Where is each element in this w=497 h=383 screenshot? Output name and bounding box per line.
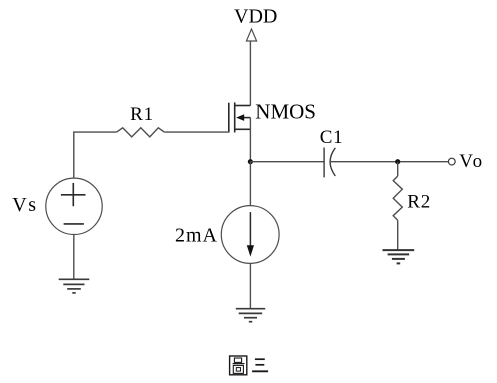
plus sign — [61, 183, 86, 206]
wire current source to ground — [249, 263, 251, 308]
wire node to R2 — [397, 162, 399, 176]
caption character 三 — [252, 359, 268, 371]
svg-text:2mA: 2mA — [175, 224, 218, 246]
caption character 圖 — [230, 356, 247, 375]
node B (output node) — [395, 159, 400, 164]
ground (below Vs) — [59, 279, 90, 293]
svg-text:C1: C1 — [320, 127, 344, 148]
svg-text:NMOS: NMOS — [255, 99, 316, 123]
wire R1 to Vs corner — [74, 132, 117, 178]
svg-text:VDD: VDD — [234, 6, 277, 28]
node A (source/output junction) — [248, 159, 253, 164]
svg-text:Vs: Vs — [12, 194, 37, 216]
wire source to node — [249, 118, 251, 162]
ground (below current source) — [236, 309, 265, 322]
wire gate — [164, 131, 229, 133]
ground (below R2) — [383, 250, 415, 263]
svg-text:R2: R2 — [407, 192, 431, 213]
wire node to C1 — [250, 161, 324, 163]
voltage source Vs — [46, 178, 102, 234]
capacitor C1 — [324, 148, 335, 178]
resistor R2 — [393, 176, 402, 220]
minus sign — [64, 223, 84, 225]
power symbol VDD arrow — [246, 29, 256, 41]
wire Vs to ground — [73, 235, 75, 280]
svg-text:Vo: Vo — [459, 151, 484, 172]
svg-text:R1: R1 — [130, 104, 154, 125]
wire node to current source — [249, 162, 251, 206]
wire C1 to Vo — [331, 161, 449, 163]
transistor Q1 NMOS — [229, 102, 251, 132]
wire R2 to ground — [397, 220, 399, 250]
wire VDD to drain — [249, 41, 251, 106]
current source I1 — [221, 206, 279, 264]
resistor R1 — [117, 128, 165, 137]
current source arrow — [249, 212, 251, 247]
terminal Vo — [448, 158, 455, 165]
